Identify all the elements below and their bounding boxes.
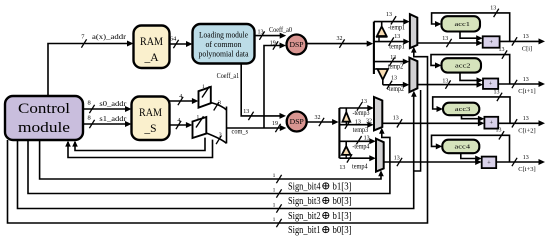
svg-text:13: 13 [355, 120, 361, 126]
svg-text:13: 13 [390, 55, 396, 61]
svg-text:C[i+1]: C[i+1] [518, 88, 535, 95]
svg-text:_A: _A [143, 52, 159, 64]
svg-text:Coeff_a0: Coeff_a0 [269, 26, 292, 34]
svg-text:13: 13 [243, 109, 249, 115]
svg-text:b0[3]: b0[3] [333, 196, 352, 207]
svg-text:4: 4 [179, 94, 182, 100]
svg-text:Sign_bit1: Sign_bit1 [288, 225, 321, 236]
svg-text:13: 13 [364, 136, 370, 142]
svg-text:64: 64 [170, 36, 177, 43]
svg-text:polynomial data: polynomial data [199, 50, 249, 59]
svg-text:13: 13 [391, 75, 397, 81]
svg-text:RAM: RAM [139, 107, 162, 119]
svg-text:19: 19 [272, 121, 278, 127]
svg-text:13: 13 [361, 99, 367, 105]
svg-text:_S: _S [143, 123, 156, 135]
svg-text:-temp3: -temp3 [353, 109, 370, 117]
svg-text:Sign_bit4: Sign_bit4 [288, 181, 321, 192]
svg-text:32: 32 [366, 118, 372, 124]
svg-text:32: 32 [337, 36, 343, 42]
svg-text:13: 13 [490, 5, 496, 11]
svg-text:+: + [487, 159, 491, 166]
svg-text:b1[3]: b1[3] [333, 181, 352, 192]
svg-text:1: 1 [273, 187, 276, 193]
svg-text:13: 13 [258, 29, 264, 35]
svg-text:temp3: temp3 [353, 126, 369, 134]
svg-text:RAM: RAM [140, 36, 163, 48]
svg-text:13: 13 [496, 128, 502, 134]
svg-text:13: 13 [386, 12, 392, 18]
svg-text:Sign_bit3: Sign_bit3 [288, 196, 321, 207]
svg-text:3: 3 [219, 133, 222, 139]
svg-text:b1[3]: b1[3] [333, 211, 352, 222]
svg-text:13: 13 [523, 155, 529, 161]
svg-text:acc4: acc4 [455, 144, 471, 151]
svg-text:com_s: com_s [232, 128, 249, 136]
svg-text:1: 1 [273, 202, 276, 208]
svg-text:acc1: acc1 [455, 21, 471, 28]
svg-text:+: + [489, 81, 493, 88]
svg-text:Loading module: Loading module [199, 31, 248, 40]
svg-text:-temp1: -temp1 [388, 23, 405, 31]
svg-text:13: 13 [442, 36, 448, 42]
svg-text:a(x)_addr: a(x)_addr [92, 33, 127, 41]
svg-text:C[i]: C[i] [522, 46, 532, 53]
svg-text:13: 13 [394, 156, 400, 162]
svg-text:Sign_bit2: Sign_bit2 [288, 211, 321, 222]
svg-text:temp4: temp4 [352, 162, 368, 170]
svg-text:temp1: temp1 [389, 43, 405, 51]
svg-text:32: 32 [315, 115, 321, 121]
svg-text:13: 13 [393, 116, 399, 122]
svg-text:13: 13 [494, 89, 500, 95]
svg-text:1: 1 [196, 114, 199, 120]
svg-text:temp2: temp2 [388, 62, 404, 70]
svg-text:module: module [18, 120, 70, 136]
svg-text:DSP: DSP [290, 40, 304, 49]
svg-text:b0[3]: b0[3] [333, 225, 352, 236]
svg-text:13: 13 [523, 77, 529, 83]
svg-text:of common: of common [206, 40, 242, 49]
svg-text:s0_addr: s0_addr [99, 100, 127, 108]
svg-text:DSP: DSP [290, 117, 304, 126]
svg-text:acc2: acc2 [455, 63, 471, 70]
svg-text:acc3: acc3 [455, 106, 471, 113]
svg-text:s1_addr: s1_addr [99, 115, 127, 123]
svg-text:C[i+3]: C[i+3] [518, 166, 535, 173]
svg-text:8: 8 [88, 100, 91, 107]
svg-text:4: 4 [177, 118, 180, 124]
svg-text:13: 13 [499, 47, 505, 53]
svg-text:+: + [489, 39, 493, 46]
svg-text:13: 13 [339, 165, 345, 171]
svg-text:8: 8 [88, 115, 91, 122]
svg-text:-temp4: -temp4 [352, 142, 369, 150]
svg-text:Coeff_a1: Coeff_a1 [217, 72, 240, 80]
svg-text:13: 13 [442, 79, 448, 85]
svg-text:C[i+2]: C[i+2] [518, 128, 535, 135]
svg-text:13: 13 [394, 34, 400, 40]
svg-text:-temp2: -temp2 [387, 85, 404, 93]
svg-text:+: + [489, 120, 493, 127]
svg-text:1: 1 [273, 217, 276, 223]
svg-text:Control: Control [18, 101, 70, 117]
svg-text:1: 1 [202, 84, 205, 90]
svg-text:1: 1 [273, 173, 276, 179]
svg-text:19: 19 [270, 41, 276, 47]
svg-text:13: 13 [523, 116, 529, 122]
svg-text:13: 13 [523, 34, 529, 40]
svg-text:3: 3 [218, 100, 221, 106]
